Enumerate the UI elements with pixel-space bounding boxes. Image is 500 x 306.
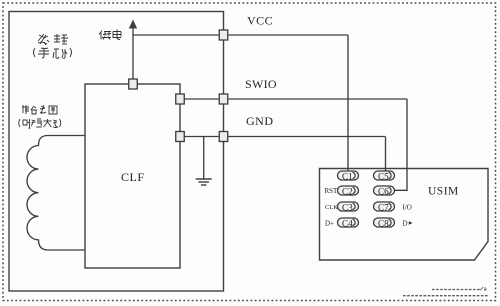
svg-text:C6: C6 bbox=[378, 186, 389, 196]
svg-text:GND: GND bbox=[246, 114, 274, 128]
svg-text:C4: C4 bbox=[342, 218, 353, 228]
svg-text:C5: C5 bbox=[378, 171, 389, 181]
svg-text:VCC: VCC bbox=[247, 14, 273, 28]
pin C3 bbox=[338, 202, 359, 212]
svg-text:C1: C1 bbox=[342, 171, 353, 181]
watermark dashed line 2 bbox=[403, 295, 489, 297]
coupling coil bbox=[27, 136, 85, 251]
pin C8 bbox=[374, 218, 395, 228]
supply arrowhead bbox=[129, 20, 137, 29]
svg-text:USIM: USIM bbox=[428, 186, 459, 198]
ground stem bbox=[203, 137, 205, 179]
node SWIO on terminal edge bbox=[219, 94, 228, 104]
svg-text:SWIO: SWIO bbox=[245, 77, 277, 91]
svg-text:I/O: I/O bbox=[403, 204, 412, 212]
pin C4 bbox=[338, 218, 359, 228]
watermark mark bbox=[480, 287, 487, 291]
wire SWIO drop and bend to C6 bbox=[395, 99, 407, 190]
pin C1 bbox=[338, 171, 359, 181]
wire GND drop to C5 bbox=[385, 137, 387, 172]
watermark dashed line 1 bbox=[432, 289, 480, 291]
node on CLF top (supply) bbox=[129, 79, 138, 89]
CLF box bbox=[85, 84, 180, 268]
node GND on terminal edge bbox=[219, 132, 228, 142]
svg-text:C3: C3 bbox=[342, 202, 353, 212]
pin C2 bbox=[338, 186, 359, 196]
label 供电 bbox=[99, 30, 121, 40]
wire VCC drop to C1 bbox=[347, 35, 349, 171]
svg-text:C7: C7 bbox=[378, 202, 389, 212]
pin C7 bbox=[374, 202, 395, 212]
svg-text:D: D bbox=[403, 220, 408, 228]
label 耦合线圈 bbox=[22, 105, 57, 114]
node SWIO on CLF edge bbox=[176, 94, 185, 104]
wire VCC rail bbox=[133, 34, 348, 36]
svg-text:CLK: CLK bbox=[325, 204, 338, 211]
svg-text:CLF: CLF bbox=[121, 170, 145, 184]
svg-text:C8: C8 bbox=[378, 218, 389, 228]
svg-text:C2: C2 bbox=[342, 186, 353, 196]
label (手机) bbox=[34, 48, 72, 58]
ground symbol bbox=[196, 179, 212, 185]
label (射频天线) bbox=[19, 119, 61, 128]
svg-text:D+: D+ bbox=[325, 220, 334, 228]
pin C6 bbox=[374, 186, 395, 196]
wire SWIO rail bbox=[180, 98, 407, 100]
USIM body bbox=[320, 169, 489, 261]
supply arrow line bbox=[132, 27, 134, 84]
pin C5 bbox=[374, 171, 395, 181]
node GND on CLF edge bbox=[176, 132, 185, 142]
wire GND rail bbox=[180, 136, 386, 138]
label 终端 bbox=[38, 34, 68, 45]
terminal (phone) box bbox=[9, 12, 224, 292]
svg-text:RST: RST bbox=[325, 187, 339, 195]
node VCC on terminal edge bbox=[219, 30, 228, 40]
